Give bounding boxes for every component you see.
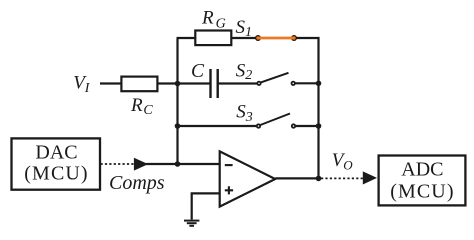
svg-text:(MCU): (MCU) — [24, 162, 88, 184]
svg-text:(MCU): (MCU) — [390, 180, 454, 202]
svg-text:DAC: DAC — [35, 141, 77, 163]
svg-text:C: C — [191, 61, 205, 82]
svg-text:ADC: ADC — [401, 159, 443, 181]
svg-text:Comps: Comps — [109, 172, 165, 194]
